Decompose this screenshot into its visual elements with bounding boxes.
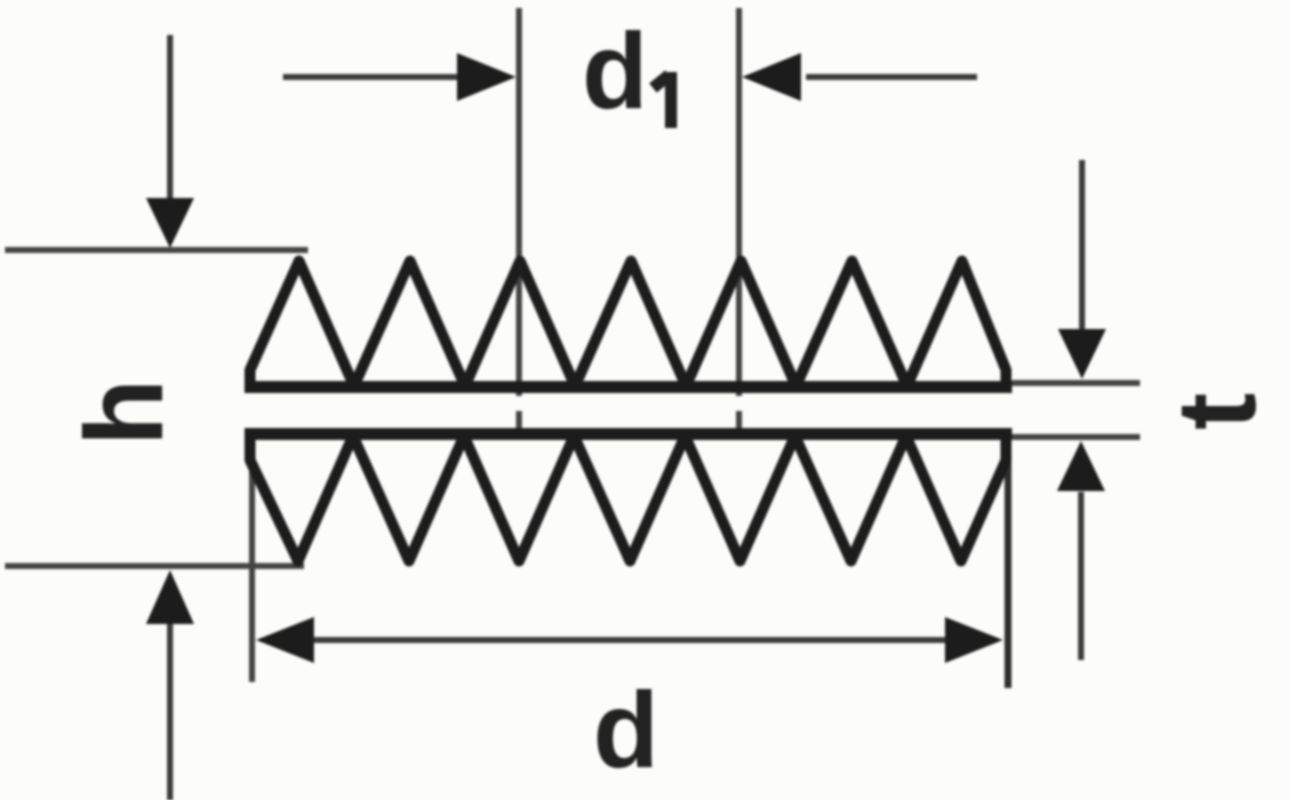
d1 extension line left bbox=[516, 8, 522, 431]
t top arrow bbox=[1058, 160, 1106, 379]
washer band top line bbox=[245, 381, 1012, 393]
t lower extension line bbox=[1012, 434, 1140, 440]
t upper extension line bbox=[1012, 380, 1140, 386]
label d1 bbox=[582, 10, 671, 131]
h upper extension line bbox=[5, 247, 308, 253]
d extension line right bbox=[1005, 450, 1012, 688]
d1 right arrow bbox=[742, 53, 977, 101]
h top arrow bbox=[146, 35, 194, 248]
washer upper serrated profile bbox=[250, 261, 1006, 393]
svg-text:h: h bbox=[63, 379, 186, 446]
h bottom arrow bbox=[146, 570, 194, 800]
t bottom arrow bbox=[1057, 441, 1105, 660]
svg-text:d: d bbox=[582, 10, 648, 131]
svg-text:d: d bbox=[593, 669, 659, 790]
h lower extension line bbox=[5, 563, 304, 569]
d1 extension line right bbox=[736, 8, 742, 431]
d extension line left bbox=[249, 462, 255, 682]
svg-text:t: t bbox=[1154, 393, 1279, 430]
washer lower serrated profile bbox=[250, 428, 1006, 561]
d dimension arrow bbox=[256, 617, 1003, 663]
d1 left arrow bbox=[283, 53, 516, 101]
washer band bottom line bbox=[245, 428, 1012, 440]
